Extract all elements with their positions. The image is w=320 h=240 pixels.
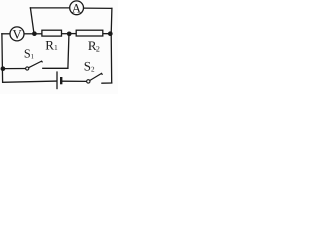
wire R1 to dot2 bbox=[62, 33, 68, 35]
wire top-left horizontal bbox=[30, 7, 69, 9]
wire ammeter-branch left riser bbox=[30, 8, 33, 32]
wire battery to S2 pivot bbox=[62, 80, 87, 82]
wire S2 fixed side to bottom-right corner bbox=[102, 82, 112, 84]
wire S1 branch riser to dot2 bbox=[68, 36, 69, 69]
wire left vertical and bottom-left run bbox=[2, 34, 56, 83]
node dot2 bbox=[67, 31, 72, 36]
wire S1 branch from dot4 to pivot bbox=[5, 68, 26, 70]
wire right-side vertical bbox=[110, 8, 113, 83]
wire top-right horizontal bbox=[84, 7, 112, 9]
svg-text:V: V bbox=[12, 27, 22, 41]
wire R2 to dot3 bbox=[103, 33, 109, 35]
switch S1 blade bbox=[29, 61, 43, 68]
resistor R1 bbox=[42, 30, 62, 36]
svg-text:A: A bbox=[72, 1, 82, 15]
wire S1 fixed side bbox=[43, 67, 68, 69]
node dot1 bbox=[32, 31, 37, 36]
voltmeter V bbox=[10, 27, 24, 41]
wire dot2 to R2 bbox=[71, 33, 76, 35]
ammeter A bbox=[70, 1, 84, 16]
battery short plate bbox=[60, 77, 62, 84]
battery long plate bbox=[56, 71, 58, 89]
switch S2 pivot bbox=[87, 80, 90, 83]
switch S2 blade bbox=[90, 73, 103, 80]
node dot4 bbox=[1, 66, 6, 71]
wire voltmeter to node dot1 bbox=[24, 33, 32, 35]
wire far-left stub to voltmeter bbox=[2, 33, 10, 35]
resistor R2 bbox=[76, 30, 103, 36]
switch S1 pivot bbox=[26, 67, 29, 70]
node dot3 bbox=[108, 31, 113, 36]
wire dot1 to R1 bbox=[37, 33, 43, 35]
